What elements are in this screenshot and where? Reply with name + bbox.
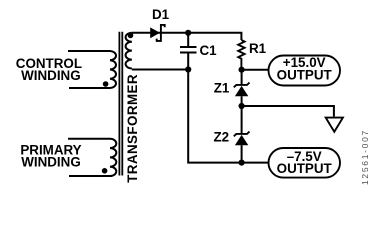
zener Z2 lead bottom — [241, 145, 243, 162]
secondary winding phase dot — [128, 33, 134, 39]
zener Z2 lead top — [241, 106, 243, 134]
svg-text:12561-007: 12561-007 — [360, 129, 370, 185]
zener Z1 cathode bar — [234, 83, 250, 88]
+15.0V OUTPUT oval — [269, 56, 341, 86]
svg-text:WINDING: WINDING — [21, 154, 81, 169]
zener Z2 cathode bar — [234, 132, 250, 137]
wire top rail from secondary to R1 — [132, 33, 242, 40]
transformer T1 primary winding — [68, 139, 116, 176]
junction node Z2 bottom / -7.5V rail — [239, 160, 245, 166]
wire +15V tap — [242, 69, 269, 71]
capacitor C1 plates — [180, 47, 197, 53]
zener Z2 triangle — [235, 135, 248, 145]
svg-text:C1: C1 — [200, 43, 218, 58]
svg-text:TRANSFORMER: TRANSFORMER — [125, 74, 140, 183]
diode D1 (Schottky) triangle — [150, 27, 160, 38]
transformer T1 control winding — [68, 51, 116, 88]
ground symbol — [326, 118, 343, 132]
primary winding phase dot — [102, 168, 108, 174]
-7.5V OUTPUT oval — [269, 148, 341, 178]
junction node R1/Z1/+15V — [239, 67, 245, 73]
wire secondary bottom rail — [132, 69, 188, 71]
zener Z1 lead bottom — [241, 96, 243, 106]
zener Z1 triangle — [235, 86, 248, 96]
junction node Z1/Z2/ground — [239, 103, 245, 109]
junction node C1 bottom — [185, 66, 191, 72]
svg-text:Z2: Z2 — [214, 130, 230, 145]
label CONTROL WINDING — [16, 56, 82, 83]
resistor R1 zigzag — [238, 40, 244, 70]
transformer core — [119, 32, 122, 176]
svg-text:Z1: Z1 — [214, 81, 230, 96]
transformer T1 secondary winding — [126, 33, 132, 69]
capacitor C1 leads — [187, 33, 189, 70]
svg-text:WINDING: WINDING — [21, 68, 81, 83]
svg-text:OUTPUT: OUTPUT — [277, 68, 333, 83]
label +15.0V OUTPUT — [277, 55, 333, 83]
svg-text:OUTPUT: OUTPUT — [277, 161, 333, 176]
wire C1 bottom down and right to -7.5V rail — [188, 70, 268, 163]
wire ground tap — [242, 106, 334, 117]
control winding phase dot — [103, 81, 109, 87]
label -7.5V OUTPUT — [277, 149, 333, 176]
svg-text:R1: R1 — [249, 41, 267, 56]
junction node top rail / C1 — [185, 30, 191, 36]
zener Z1 lead top — [241, 70, 243, 85]
svg-text:D1: D1 — [152, 7, 170, 22]
label PRIMARY WINDING — [20, 143, 81, 170]
diode D1 cathode bar with hooks — [157, 25, 165, 41]
